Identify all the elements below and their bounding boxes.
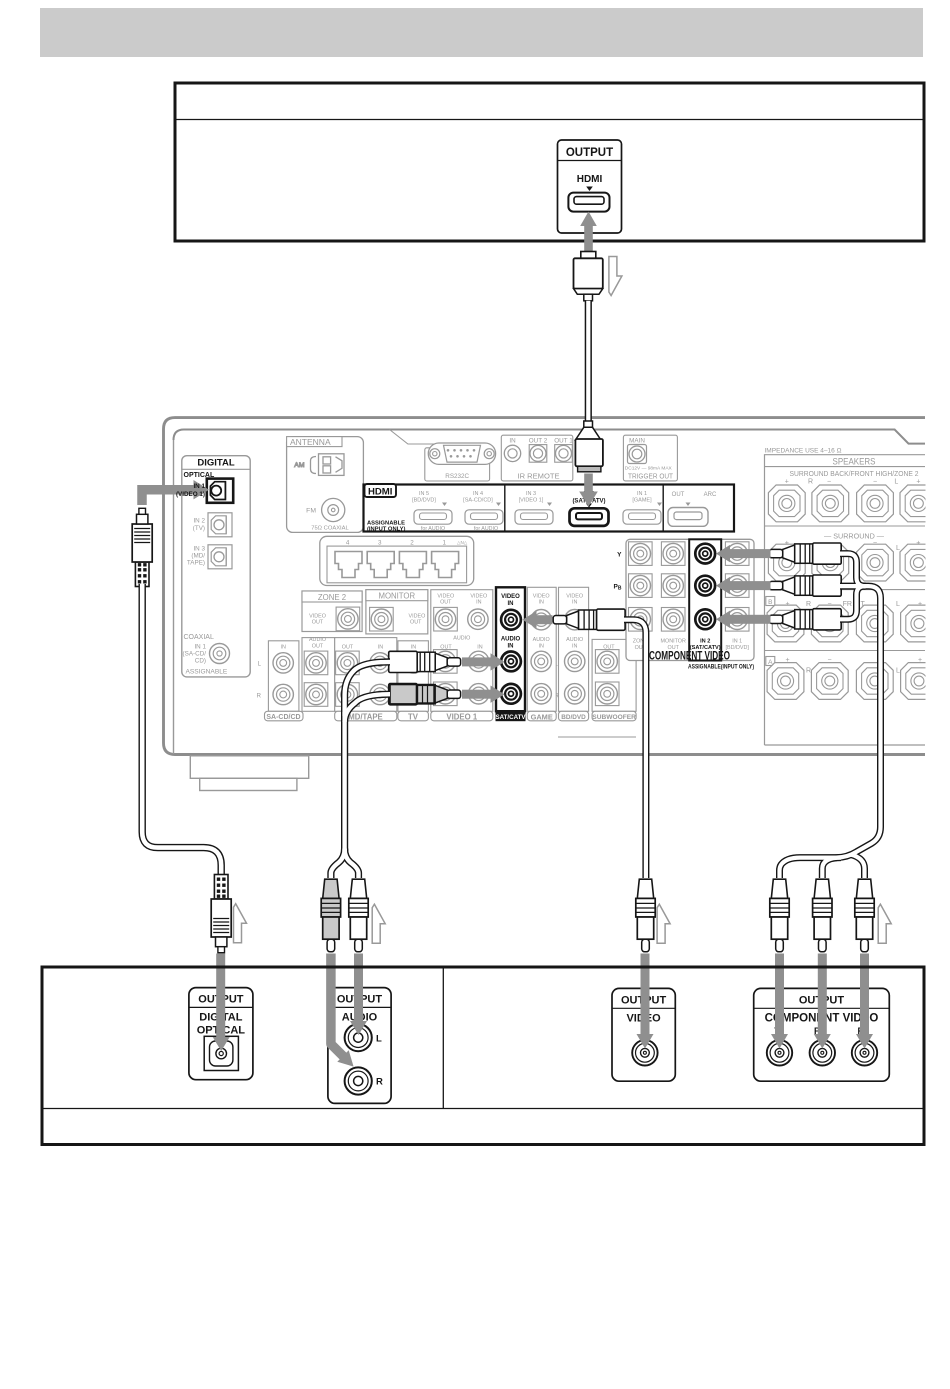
video cable line (624, 620, 646, 878)
speaker-link block (RJ45 jacks) (320, 536, 474, 585)
audio L plug (white, pointing right into AUDIO IN L) (389, 651, 461, 672)
svg-text:3: 3 (378, 539, 382, 546)
RJ45 jack 4 (335, 552, 362, 578)
svg-text:(MD/: (MD/ (191, 553, 205, 560)
svg-text:R: R (376, 1077, 383, 1088)
clip mask right edge: hide overflow beyond x=925 (926, 410, 950, 760)
svg-text:VIDEO 1: VIDEO 1 (446, 712, 477, 721)
MD/TAPE IN R jack (370, 684, 390, 704)
svg-text:IN 1: IN 1 (193, 483, 205, 490)
svg-text:[SA-CD/CD]: [SA-CD/CD] (463, 498, 493, 504)
component IN 2 label (690, 639, 721, 652)
OUTPUT DIGITAL OPTICAL sub-box (189, 988, 253, 1080)
MONITOR section box (366, 590, 428, 634)
audio R plug at bottom (gray, pointing down) (321, 879, 340, 952)
svg-text:IN 3: IN 3 (526, 491, 536, 497)
component IN 2 Y jack - active (695, 544, 715, 564)
svg-text:OUT: OUT (312, 644, 324, 650)
svg-text:DIGITAL: DIGITAL (197, 458, 234, 469)
svg-text:L: L (894, 479, 898, 486)
SUBWOOFER section box (592, 639, 636, 711)
svg-text:MONITOR: MONITOR (378, 592, 415, 601)
bottom label SA-CD/CD (265, 711, 304, 721)
bottom label BD/DVD (559, 711, 589, 721)
SAT/CATV VIDEO IN jack - active (501, 610, 521, 630)
svg-text:(INPUT ONLY): (INPUT ONLY) (367, 527, 406, 533)
IR REMOTE section box (501, 435, 573, 481)
FM antenna terminal (306, 498, 345, 521)
VIDEO 1 VIDEO IN jack (468, 609, 488, 629)
svg-text:IN 1: IN 1 (194, 644, 206, 651)
HDMI IN 2 (SAT/CATV) label - active (572, 492, 605, 508)
svg-text:HDMI: HDMI (577, 174, 603, 185)
AM antenna terminal (294, 454, 344, 476)
component IN 1 PB jack (725, 574, 749, 598)
speaker A row labels (766, 657, 922, 675)
svg-text:OUTPUT: OUTPUT (566, 147, 613, 159)
optical IN 1 (VIDEO 1) jack - active black (207, 479, 233, 503)
gray arrow down into HDMI IN 2 (579, 474, 598, 507)
MD/TAPE OUT R jack (336, 683, 360, 707)
SUBWOOFER OUT jack 1 (595, 650, 619, 674)
bottom label SUBWOOFER (592, 711, 636, 721)
gray cable bar into AUDIO R (bent) (331, 954, 354, 1067)
svg-text:IN: IN (476, 600, 481, 606)
gray arrow into component IN 2 PB (716, 577, 771, 594)
HDMI IN 4 port (465, 510, 503, 524)
RS232C DB9 connector (428, 443, 495, 464)
svg-text:△N△: △N△ (457, 540, 468, 545)
svg-text:Y: Y (617, 552, 622, 559)
gray cable bar into VIDEO (637, 954, 654, 1049)
ANTENNA section box (287, 437, 364, 533)
svg-text:SUBWOOFER: SUBWOOFER (592, 714, 636, 721)
component PR plug (pointing left into IN 2 PR) (769, 609, 841, 630)
gray cable bar into AUDIO L (350, 954, 367, 1036)
svg-text:TRIGGER OUT: TRIGGER OUT (628, 472, 673, 481)
svg-text:CD): CD) (195, 658, 206, 665)
BD/DVD VIDEO IN jack (565, 610, 585, 630)
bottom label SAT/CATV - active black (495, 710, 526, 721)
optical IN 2 (TV) jack (208, 513, 232, 537)
svg-text:IN: IN (508, 644, 514, 650)
VIDEO jack (632, 1040, 657, 1065)
bottom label TV (398, 711, 429, 721)
svg-text:IN 2: IN 2 (193, 518, 205, 525)
SA-CD/CD IN R jack (273, 684, 293, 704)
component ZONE OUT PB jack (629, 574, 653, 598)
GAME VIDEO IN jack (531, 610, 551, 630)
ZONE 2 section box (302, 591, 362, 632)
svg-text:IN: IN (411, 645, 416, 651)
TRIGGER OUT MAIN jack (628, 445, 647, 464)
svg-text:OUT: OUT (440, 600, 452, 606)
svg-text:MONITOR: MONITOR (661, 639, 686, 645)
VIDEO 1 AUDIO IN R jack (468, 684, 488, 704)
svg-text:OUT: OUT (342, 645, 354, 651)
SURROUND row header (785, 532, 921, 553)
coaxial IN 1 (SA-CD/CD) jack (210, 644, 230, 664)
svg-text:AM: AM (294, 462, 305, 469)
component Y plug at bottom (pointing down) (770, 879, 789, 952)
HDMI OUT / ARC labels (672, 492, 717, 506)
SAT/CATV AUDIO IN R jack - active (501, 684, 521, 704)
svg-text:TV: TV (408, 712, 419, 721)
svg-text:IN 5: IN 5 (419, 491, 429, 497)
RJ45 jack 1 (432, 552, 459, 578)
svg-text:RS232C: RS232C (445, 473, 469, 480)
L / R row labels (257, 662, 560, 700)
optical cable plug (at receiver, pointing up) (132, 508, 152, 586)
SAT/CATV VIDEO IN label (501, 594, 520, 607)
DIGITAL section box (182, 456, 250, 677)
SAT/CATV AUDIO IN label (501, 637, 521, 650)
HDMI IN 2 port - active black (570, 508, 609, 526)
outline arrow beside bottom optical plug (234, 904, 247, 943)
svg-text:AUDIO: AUDIO (501, 637, 521, 643)
HDMI IN 3 (VIDEO 1) label (519, 491, 552, 506)
svg-text:VIDEO: VIDEO (501, 594, 520, 600)
svg-text:IN 2: IN 2 (700, 639, 710, 645)
HDMI IN 3 port (515, 510, 553, 524)
VIDEO 1 AUDIO OUT L jack (434, 650, 458, 674)
optical cable line (down the left side) (142, 584, 221, 875)
HDMI IN 5 port (414, 510, 452, 524)
MD/TAPE IN L jack (370, 653, 390, 673)
TV IN R jack (404, 684, 424, 704)
audio pair cable lines (331, 662, 390, 878)
outline arrow beside bottom component plugs (878, 904, 891, 943)
GAME section box (527, 587, 556, 711)
svg-text:75Ω COAXIAL: 75Ω COAXIAL (311, 526, 349, 532)
GAME AUDIO IN R jack (531, 684, 551, 704)
svg-text:MAIN: MAIN (629, 438, 645, 445)
svg-text:BD/DVD: BD/DVD (561, 714, 586, 721)
GAME AUDIO IN L jack (531, 651, 551, 671)
DIGITAL OPTICAL connector (204, 1036, 238, 1070)
svg-text:OUT: OUT (672, 492, 685, 498)
VIDEO 1 section box (431, 590, 493, 712)
SAT/CATV AUDIO IN L jack - active (501, 652, 521, 672)
video plug at bottom (pointing down) (636, 879, 655, 952)
bottom box border re-stroke over bars (42, 966, 924, 969)
svg-text:GAME: GAME (531, 712, 553, 721)
svg-text:L: L (376, 1034, 382, 1045)
svg-text:for AUDIO: for AUDIO (421, 526, 445, 532)
SAT/CATV column - active black outline (496, 587, 525, 711)
svg-text:FR: FR (843, 601, 852, 608)
IN 1 (SA-CD/CD) label (183, 644, 207, 665)
component ZONE OUT PR jack (629, 608, 653, 632)
header gray bar (40, 8, 923, 57)
svg-text:4: 4 (346, 539, 350, 546)
gray cable bar into COMPONENT PB (814, 954, 831, 1049)
optical IN 3 (MD/TAPE) jack (208, 545, 232, 569)
video plug (pointing left into SAT/CATV VIDEO IN) (553, 609, 625, 630)
svg-text:[VIDEO 1]: [VIDEO 1] (519, 498, 544, 504)
svg-text:OUT: OUT (312, 620, 324, 626)
svg-text:IN: IN (538, 600, 543, 606)
svg-text:IN: IN (572, 644, 577, 650)
svg-text:for AUDIO: for AUDIO (474, 526, 498, 532)
OUTPUT VIDEO sub-box (612, 988, 675, 1081)
AUDIO L jack (345, 1024, 372, 1051)
svg-text:ASSIGNABLE(INPUT ONLY): ASSIGNABLE(INPUT ONLY) (688, 664, 754, 671)
svg-text:IN: IN (508, 601, 514, 607)
svg-text:IR REMOTE: IR REMOTE (518, 472, 560, 481)
gray arrow into component IN 2 PR (716, 611, 771, 628)
svg-text:SPEAKERS: SPEAKERS (833, 457, 876, 467)
svg-text:1: 1 (443, 539, 447, 546)
HDMI IN 1 port (623, 510, 661, 524)
receiver foot (190, 756, 308, 791)
SA-CD/CD IN L jack (273, 653, 293, 673)
RJ45 jack 3 (367, 552, 394, 578)
HDMI IN 4 (SA-CD/CD) label (463, 491, 501, 506)
MONITOR VIDEO OUT jack (370, 607, 394, 631)
component PR plug at bottom (pointing down) (855, 879, 874, 952)
svg-text:IN 4: IN 4 (473, 491, 483, 497)
svg-text:R: R (806, 601, 811, 608)
svg-text:HDMI: HDMI (368, 486, 393, 497)
ZONE 2 VIDEO OUT jack (336, 607, 360, 631)
svg-text:SA-CD/CD: SA-CD/CD (266, 714, 300, 721)
gray arrow up into HDMI OUTPUT (580, 212, 597, 254)
svg-text:IN: IN (509, 438, 516, 445)
IN 3 (MD/TAPE) label (187, 546, 206, 567)
svg-text:OUT: OUT (410, 620, 422, 626)
BD/DVD AUDIO IN L jack (565, 651, 585, 671)
component IN 2 PB jack - active (695, 576, 715, 596)
speaker B row labels (766, 597, 922, 609)
svg-text:FM: FM (306, 508, 316, 515)
bottom label MD/TAPE (335, 711, 397, 721)
audio R plug (gray, pointing right into AUDIO IN R) (389, 684, 461, 705)
svg-text:COMPONENT VIDEO: COMPONENT VIDEO (649, 649, 730, 663)
svg-text:AUDIO: AUDIO (533, 637, 550, 643)
svg-text:R: R (257, 694, 262, 700)
svg-text:MD/TAPE: MD/TAPE (348, 712, 383, 721)
BD/DVD section box (559, 587, 589, 711)
COMPONENT PR jack (852, 1040, 877, 1065)
svg-text:ANTENNA: ANTENNA (290, 437, 331, 447)
COMPONENT Y jack (767, 1040, 792, 1065)
ZONE 2 AUDIO OUT L jack (304, 651, 328, 675)
VIDEO 1 VIDEO OUT jack (434, 607, 458, 631)
svg-text:R: R (808, 479, 813, 486)
source device box (top) (175, 83, 924, 241)
COMPONENT PB jack (810, 1040, 835, 1065)
gray cable bar into DIGITAL OPTICAL (213, 954, 230, 1052)
outline arrow (insert direction, down) beside top HDMI plug (609, 257, 622, 296)
audio L plug at bottom (white, pointing down) (349, 879, 368, 952)
OUTPUT AUDIO sub-box (328, 988, 391, 1104)
speaker row 1 labels (785, 479, 921, 486)
IR REMOTE OUT 2 jack (529, 445, 547, 463)
svg-text:AUDIO: AUDIO (566, 637, 583, 643)
svg-text:L: L (896, 543, 900, 552)
RS232C section box (425, 448, 490, 481)
RJ45 jack 2 (399, 552, 426, 578)
svg-text:IN 1: IN 1 (637, 491, 647, 497)
component IN 1 PR jack (725, 608, 749, 632)
speaker terminals row 2 (SURROUND) (768, 544, 805, 581)
SA-CD/CD section box (268, 641, 299, 712)
svg-text:IN: IN (280, 645, 285, 651)
component PB plug at bottom (pointing down) (813, 879, 832, 952)
component Y plug (pointing left into IN 2 Y) (769, 543, 841, 564)
svg-text:ASSIGNABLE: ASSIGNABLE (186, 669, 228, 676)
TRIGGER OUT section box (623, 435, 677, 481)
gray arrow into AUDIO IN R (462, 686, 505, 703)
IR REMOTE OUT 1 jack (555, 445, 573, 463)
COMPONENT VIDEO section box (626, 539, 754, 660)
svg-text:IN: IN (378, 645, 383, 651)
HDMI cable plug (top, pointing up) (574, 252, 603, 301)
svg-text:ARC: ARC (704, 492, 717, 498)
OUTPUT COMPONENT VIDEO sub-box (754, 988, 890, 1081)
svg-text:(VIDEO 1): (VIDEO 1) (176, 491, 205, 498)
HDMI cable plug (bottom, pointing down into receiver IN 2) (575, 421, 603, 472)
outline arrow beside bottom audio plugs (372, 904, 385, 943)
bottom label VIDEO 1 (431, 711, 493, 721)
component MONITOR OUT Y jack (661, 542, 685, 566)
component PB plug (pointing left into IN 2 PB) (769, 575, 841, 596)
component IN 1 Y jack (725, 542, 749, 566)
gray cable bar into COMPONENT Y (771, 954, 788, 1049)
svg-text:IN: IN (538, 644, 543, 650)
HDMI OUT port (668, 508, 708, 527)
svg-text:B: B (768, 599, 772, 606)
svg-text:(TV): (TV) (193, 525, 205, 532)
MD/TAPE section box (335, 638, 397, 712)
svg-text:SAT/CATV: SAT/CATV (495, 714, 526, 721)
outline arrow beside bottom video plug (657, 904, 670, 943)
IR REMOTE IN jack (504, 445, 520, 461)
svg-text:IN: IN (477, 645, 482, 651)
BD/DVD AUDIO IN R jack (565, 684, 585, 704)
gray arrow into AUDIO IN L (462, 653, 505, 670)
speaker terminals row 1 (768, 485, 805, 522)
HDMI IN 1 (GAME) label (632, 491, 662, 506)
svg-text:IMPEDANCE USE 4–16 Ω: IMPEDANCE USE 4–16 Ω (765, 448, 842, 455)
component MONITOR OUT PB jack (661, 574, 685, 598)
svg-text:L: L (896, 601, 900, 608)
SUBWOOFER OUT jack 2 (595, 682, 619, 706)
TV IN L jack (404, 653, 424, 673)
HDMI IN 5 (BD/DVD) label (412, 491, 447, 506)
SPEAKERS section (765, 448, 926, 746)
ZONE 2 AUDIO OUT R jack (304, 683, 328, 707)
HDMI cable line (585, 301, 592, 423)
svg-text:2: 2 (410, 539, 414, 546)
svg-text:IN 3: IN 3 (193, 546, 205, 553)
speaker terminals row 3 (FRONT B) (767, 605, 804, 642)
gray arrow into SAT/CATV VIDEO IN (523, 611, 553, 628)
MD/TAPE OUT L jack (336, 651, 360, 675)
ZONE 2 audio column box (302, 637, 335, 711)
svg-text:R: R (806, 668, 811, 675)
gray arrow into optical IN 1 (from optical cable) (142, 480, 209, 505)
component cable lines (780, 554, 881, 878)
VIDEO 1 AUDIO IN L jack (468, 651, 488, 671)
svg-text:IN 1: IN 1 (732, 639, 742, 645)
gray arrow into component IN 2 Y (716, 545, 771, 562)
VIDEO 1 AUDIO OUT R jack (434, 682, 458, 706)
svg-text:(SA-CD/: (SA-CD/ (183, 651, 207, 658)
optical cable plug (at bottom box, pointing down) (211, 875, 231, 953)
component ZONE OUT Y jack (629, 542, 653, 566)
svg-text:AUDIO: AUDIO (453, 636, 470, 642)
svg-text:TAPE): TAPE) (187, 560, 205, 567)
svg-text:[GAME]: [GAME] (632, 498, 652, 504)
component IN 2 PR jack - active (695, 609, 715, 629)
AUDIO R jack (345, 1067, 372, 1094)
HDMI OUTPUT connector box on source device (558, 140, 622, 233)
bottom device box (42, 967, 924, 1145)
svg-text:AUDIO: AUDIO (309, 637, 326, 643)
IN 2 (TV) label (193, 518, 206, 533)
component MONITOR OUT PR jack (661, 608, 685, 632)
HDMI section box (364, 484, 735, 533)
svg-text:SURROUND BACK/FRONT HIGH/ZONE: SURROUND BACK/FRONT HIGH/ZONE 2 (790, 471, 919, 478)
svg-text:OUT 1: OUT 1 (554, 438, 573, 445)
TV section box (398, 641, 429, 712)
svg-text:COAXIAL: COAXIAL (184, 634, 214, 641)
gray cable bar into COMPONENT PR (856, 954, 873, 1049)
component IN 2 column - active black (689, 539, 721, 660)
IN 1 (VIDEO 1) label (176, 483, 206, 498)
svg-text:L: L (896, 668, 900, 675)
svg-text:ZONE 2: ZONE 2 (318, 593, 346, 602)
svg-text:OUT 2: OUT 2 (529, 438, 548, 445)
receiver panel outline (164, 418, 926, 755)
bottom label GAME (527, 711, 556, 721)
speaker terminals row 4 (FRONT A) (767, 663, 804, 700)
svg-text:PB: PB (614, 584, 622, 592)
svg-text:[BD/DVD]: [BD/DVD] (412, 498, 436, 504)
svg-text:IN: IN (572, 600, 577, 606)
